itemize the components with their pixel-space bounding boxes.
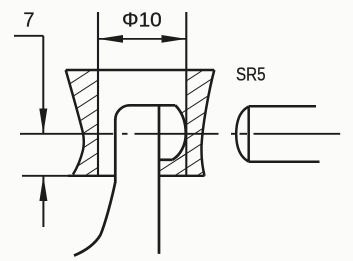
svg-text:7: 7	[23, 9, 34, 31]
svg-text:SR5: SR5	[236, 65, 266, 85]
svg-text:Φ10: Φ10	[122, 10, 162, 32]
